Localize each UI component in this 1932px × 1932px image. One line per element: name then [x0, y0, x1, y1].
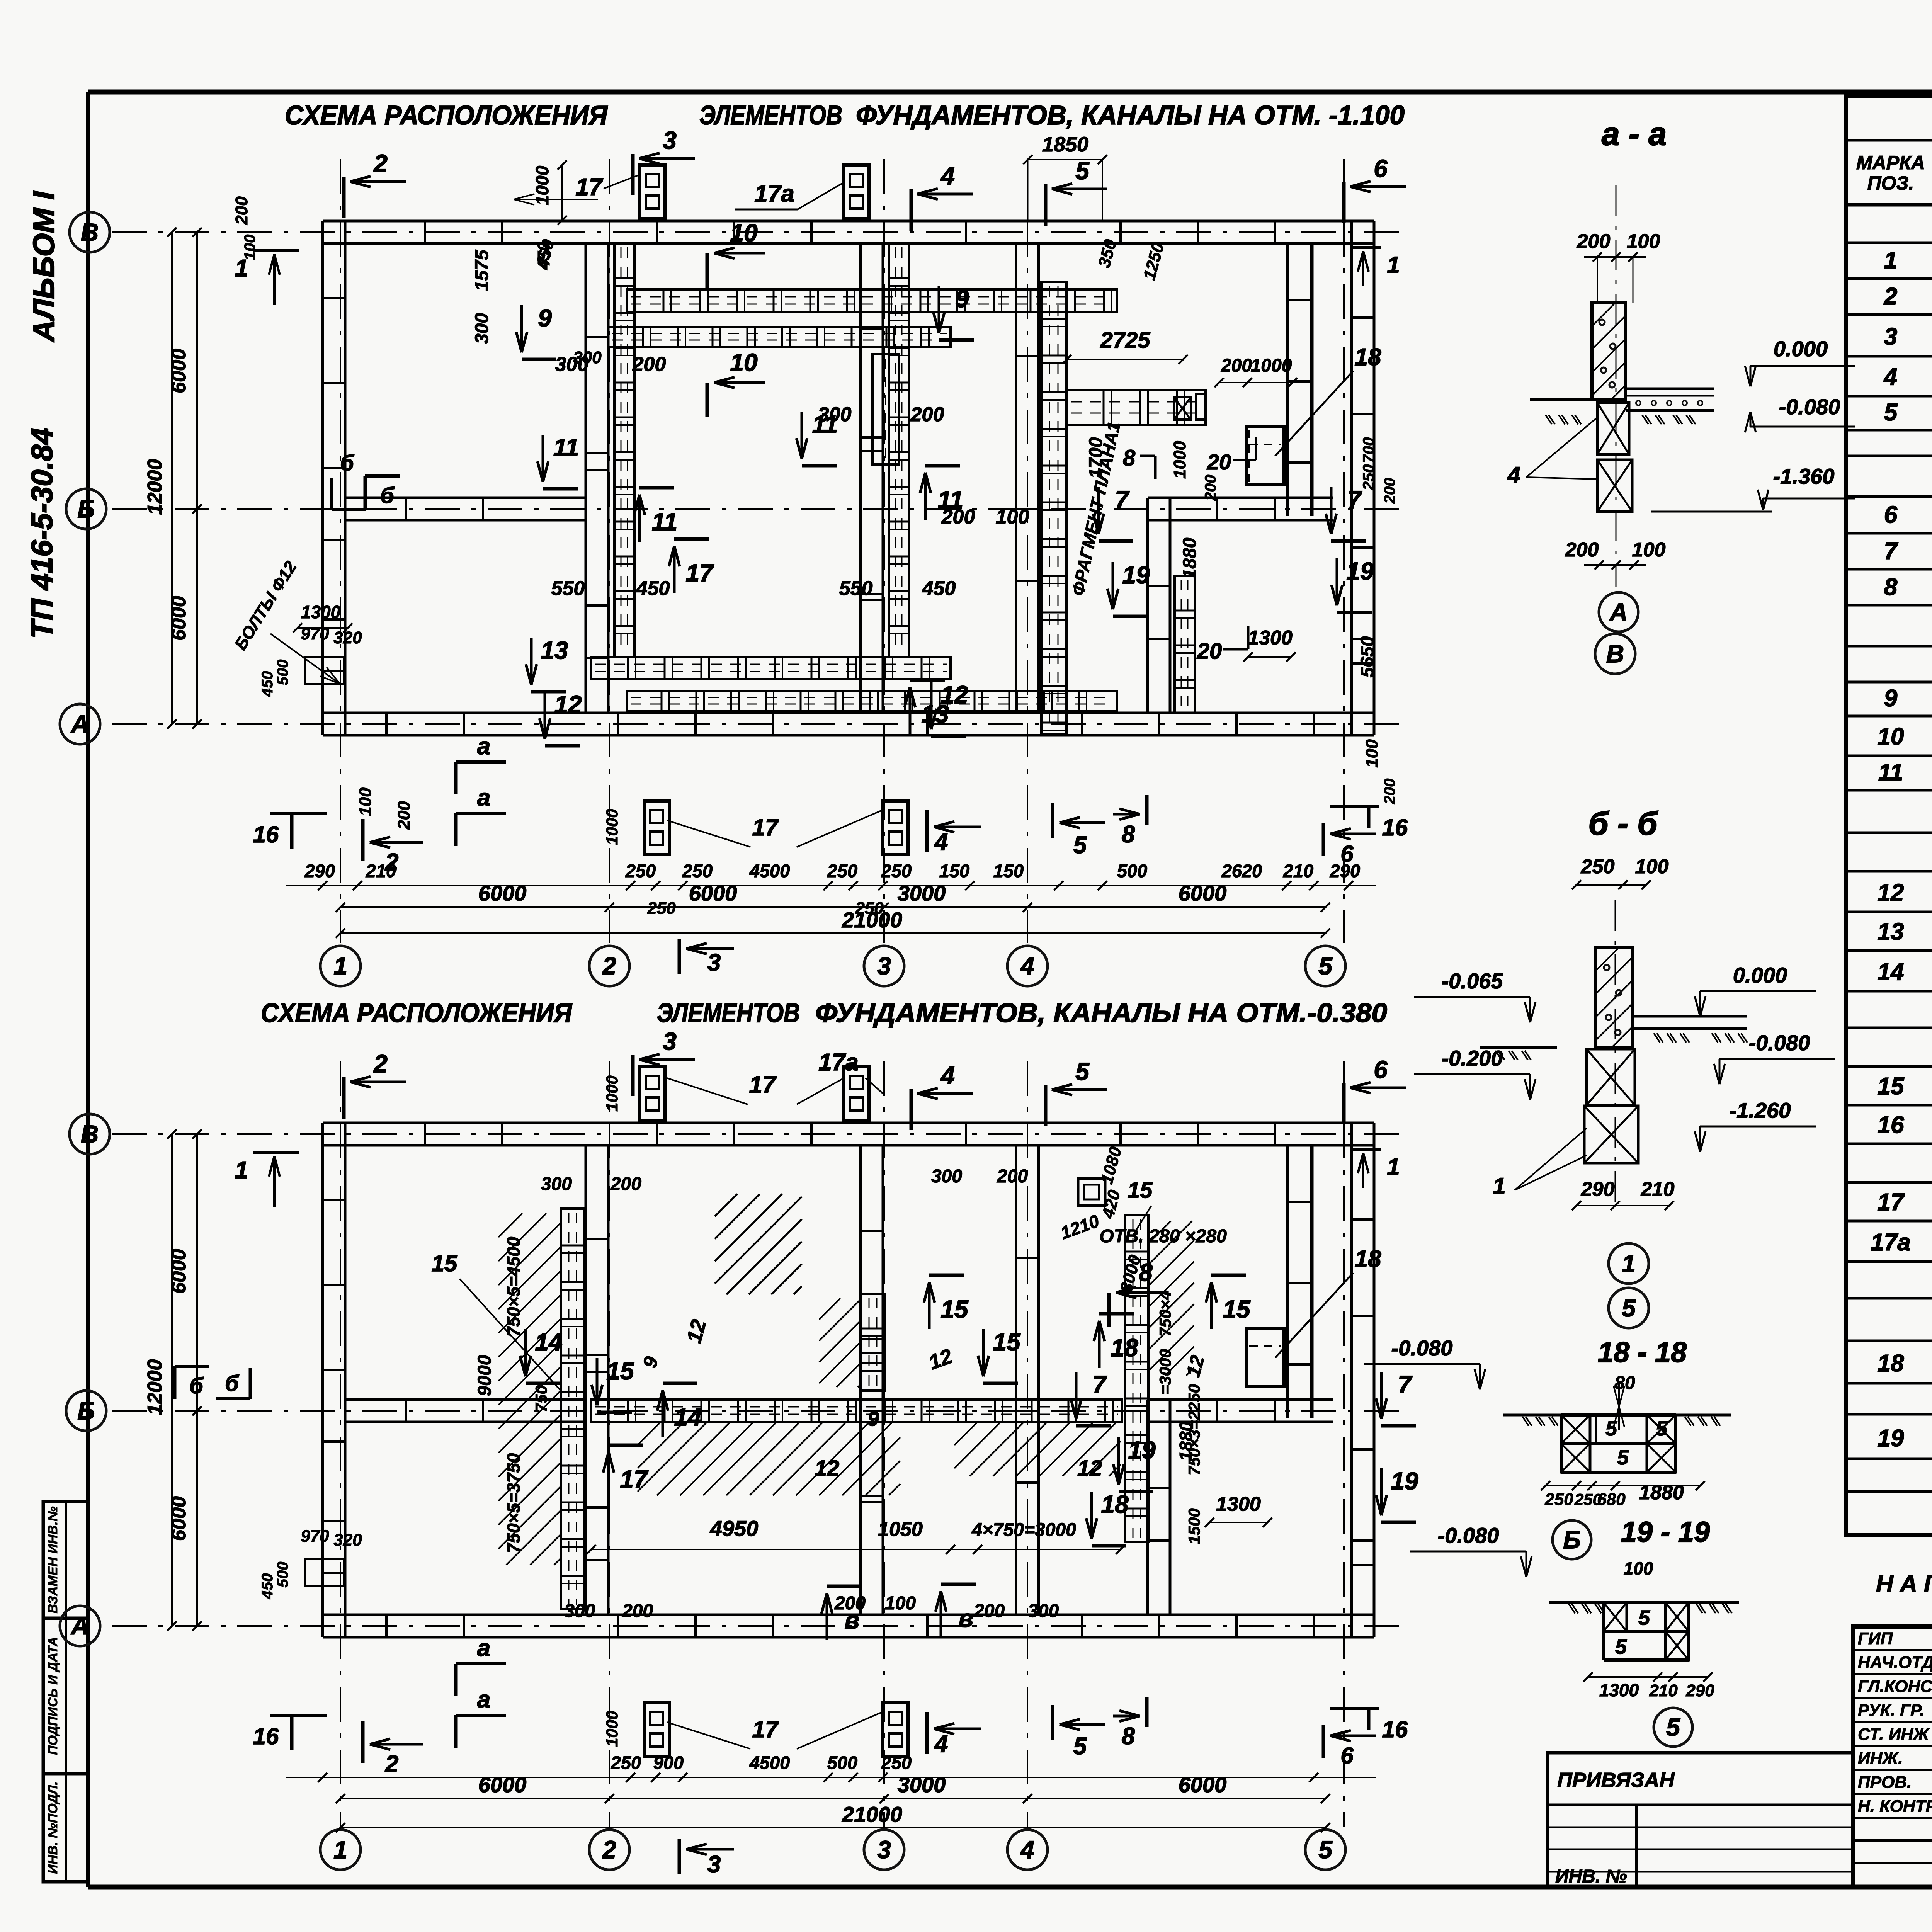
svg-text:6000: 6000	[478, 1772, 527, 1797]
svg-text:1880: 1880	[1176, 1421, 1196, 1461]
svg-text:2: 2	[602, 1836, 616, 1864]
svg-text:550: 550	[551, 577, 585, 600]
svg-text:в: в	[959, 1604, 974, 1632]
svg-text:6000: 6000	[168, 596, 190, 641]
svg-text:200: 200	[1381, 478, 1398, 504]
svg-text:1: 1	[1387, 252, 1400, 278]
svg-text:12: 12	[554, 690, 582, 718]
svg-text:0.000: 0.000	[1774, 337, 1828, 361]
svg-text:290: 290	[1330, 861, 1360, 881]
svg-text:250: 250	[827, 861, 857, 881]
svg-text:3: 3	[663, 1027, 677, 1055]
svg-text:12: 12	[940, 681, 968, 709]
svg-text:ОТВ. 280 ×280: ОТВ. 280 ×280	[1099, 1226, 1227, 1247]
svg-text:200: 200	[1577, 230, 1611, 253]
svg-text:550: 550	[839, 577, 873, 600]
svg-text:100: 100	[1624, 1558, 1653, 1578]
svg-text:450: 450	[259, 1573, 276, 1600]
svg-text:a: a	[477, 1635, 490, 1662]
svg-text:ИНЖ.: ИНЖ.	[1858, 1749, 1903, 1768]
svg-text:17: 17	[685, 559, 714, 587]
svg-text:500: 500	[274, 660, 291, 685]
svg-text:7: 7	[1884, 538, 1898, 565]
svg-text:200: 200	[941, 506, 975, 528]
svg-text:750×4: 750×4	[1156, 1291, 1174, 1337]
svg-text:5: 5	[1318, 1836, 1333, 1864]
svg-text:250: 250	[647, 899, 676, 918]
svg-text:17: 17	[576, 174, 603, 201]
svg-text:15: 15	[1878, 1073, 1905, 1100]
svg-text:Б: Б	[77, 495, 95, 523]
svg-text:Н. КОНТР: Н. КОНТР	[1858, 1797, 1932, 1816]
svg-text:ЭЛЕМЕНТОВ: ЭЛЕМЕНТОВ	[699, 100, 842, 130]
svg-text:6000: 6000	[168, 349, 190, 393]
svg-text:21000: 21000	[842, 908, 902, 932]
svg-text:5: 5	[1075, 1058, 1090, 1085]
svg-text:320: 320	[333, 628, 362, 647]
svg-text:4500: 4500	[749, 1752, 790, 1773]
svg-text:200: 200	[1202, 475, 1219, 501]
svg-text:АЛЬБОМ I: АЛЬБОМ I	[27, 191, 61, 343]
svg-text:9: 9	[1884, 685, 1898, 712]
svg-text:7: 7	[1092, 1371, 1107, 1398]
svg-text:150: 150	[939, 861, 969, 881]
svg-text:16: 16	[1878, 1112, 1904, 1138]
svg-text:ФУНДАМЕНТОВ, КАНАЛЫ НА ОТМ.-: ФУНДАМЕНТОВ, КАНАЛЫ НА ОТМ.-0.380	[815, 998, 1387, 1028]
svg-text:100: 100	[241, 235, 259, 260]
svg-text:2: 2	[385, 1751, 398, 1777]
svg-text:3: 3	[707, 949, 721, 976]
svg-text:300: 300	[1028, 1601, 1059, 1621]
svg-text:10: 10	[730, 219, 757, 247]
svg-text:-1.260: -1.260	[1730, 1098, 1791, 1122]
svg-text:РУК. ГР.: РУК. ГР.	[1858, 1701, 1924, 1720]
svg-text:200: 200	[1565, 539, 1599, 561]
svg-text:-1.360: -1.360	[1773, 464, 1835, 488]
svg-text:18: 18	[1355, 1246, 1381, 1272]
svg-text:6: 6	[1374, 155, 1388, 182]
svg-text:-0.065: -0.065	[1442, 969, 1503, 993]
svg-text:12: 12	[1878, 879, 1904, 906]
svg-text:1000: 1000	[603, 1075, 621, 1111]
svg-text:13: 13	[541, 636, 568, 664]
svg-text:12000: 12000	[144, 459, 166, 515]
svg-text:ИНВ. №: ИНВ. №	[1555, 1866, 1627, 1887]
svg-text:250: 250	[881, 1752, 912, 1773]
svg-text:19: 19	[1391, 1467, 1418, 1495]
svg-text:СХЕМА РАСПОЛОЖЕНИЯ: СХЕМА РАСПОЛОЖЕНИЯ	[261, 998, 573, 1028]
svg-text:8: 8	[1884, 574, 1898, 600]
svg-text:8: 8	[1122, 821, 1135, 848]
svg-text:200: 200	[910, 403, 944, 426]
svg-text:210: 210	[366, 861, 396, 881]
svg-text:В: В	[81, 1120, 99, 1148]
svg-text:ИНВ. №ПОДЛ.: ИНВ. №ПОДЛ.	[46, 1781, 60, 1874]
svg-text:6000: 6000	[168, 1249, 190, 1294]
svg-text:12000: 12000	[144, 1359, 166, 1415]
svg-text:17а: 17а	[1871, 1229, 1910, 1256]
svg-text:ТП 416-5-30.84: ТП 416-5-30.84	[25, 428, 59, 639]
svg-text:9000: 9000	[474, 1355, 495, 1396]
svg-text:7: 7	[1115, 486, 1130, 514]
svg-text:17: 17	[752, 815, 779, 840]
svg-text:100: 100	[1632, 539, 1666, 561]
svg-text:5: 5	[1622, 1294, 1636, 1322]
svg-text:200: 200	[610, 1174, 641, 1194]
svg-text:750: 750	[532, 1385, 550, 1412]
svg-text:1575: 1575	[472, 249, 492, 291]
svg-text:16: 16	[253, 1723, 279, 1749]
svg-text:210: 210	[1649, 1681, 1678, 1700]
svg-text:15: 15	[1223, 1295, 1251, 1323]
svg-text:6: 6	[1374, 1056, 1388, 1083]
svg-text:250: 250	[625, 861, 656, 881]
svg-text:6000: 6000	[168, 1496, 190, 1541]
svg-text:4: 4	[1507, 462, 1520, 488]
svg-text:4500: 4500	[749, 861, 790, 881]
svg-text:16: 16	[1382, 1716, 1408, 1742]
svg-text:1850: 1850	[1042, 133, 1088, 156]
svg-text:200: 200	[1221, 355, 1252, 376]
svg-text:20: 20	[1207, 450, 1231, 474]
svg-text:4: 4	[940, 162, 955, 190]
svg-text:19: 19	[1122, 561, 1150, 589]
svg-text:В: В	[81, 218, 99, 246]
svg-text:Б: Б	[77, 1397, 95, 1425]
svg-text:1000: 1000	[1251, 355, 1292, 376]
svg-text:250: 250	[881, 861, 912, 881]
svg-text:А: А	[1609, 598, 1628, 626]
svg-text:3: 3	[707, 1851, 721, 1878]
svg-text:1: 1	[333, 1836, 347, 1864]
svg-text:6000: 6000	[1179, 1772, 1227, 1797]
svg-text:-0.080: -0.080	[1438, 1523, 1499, 1548]
svg-text:450: 450	[922, 577, 956, 600]
svg-text:5: 5	[1073, 832, 1087, 859]
svg-text:19: 19	[1346, 557, 1374, 585]
svg-text:11: 11	[652, 508, 677, 536]
svg-text:1000: 1000	[532, 165, 552, 205]
svg-text:300: 300	[541, 1174, 572, 1194]
svg-text:250: 250	[611, 1752, 641, 1773]
svg-text:3: 3	[877, 1836, 891, 1864]
svg-text:ПРОВ.: ПРОВ.	[1858, 1773, 1912, 1792]
svg-text:500: 500	[1117, 861, 1147, 881]
svg-text:210: 210	[1641, 1178, 1675, 1201]
svg-text:21000: 21000	[842, 1802, 902, 1827]
svg-text:1300: 1300	[1248, 627, 1293, 649]
svg-text:ПОЗ.: ПОЗ.	[1867, 172, 1914, 194]
svg-text:5: 5	[1318, 952, 1333, 980]
svg-text:200: 200	[395, 801, 413, 830]
svg-text:5: 5	[1605, 1417, 1617, 1440]
svg-text:100: 100	[996, 506, 1029, 528]
svg-text:150: 150	[993, 861, 1024, 881]
svg-text:200: 200	[622, 1601, 653, 1621]
svg-text:19 - 19: 19 - 19	[1621, 1516, 1710, 1548]
svg-text:5650: 5650	[1357, 636, 1378, 677]
svg-text:4: 4	[1020, 952, 1034, 980]
svg-text:НАЧ.ОТД.: НАЧ.ОТД.	[1858, 1653, 1932, 1672]
svg-text:320: 320	[333, 1531, 362, 1549]
svg-text:a: a	[477, 1686, 490, 1713]
svg-text:5: 5	[1073, 1733, 1087, 1760]
svg-text:970: 970	[301, 1527, 329, 1546]
svg-text:-0.080: -0.080	[1779, 395, 1840, 419]
svg-text:500: 500	[827, 1752, 857, 1773]
svg-text:В: В	[1606, 640, 1624, 668]
svg-text:1000: 1000	[603, 1711, 621, 1747]
svg-text:1880: 1880	[1639, 1481, 1684, 1504]
svg-text:750×5=3750: 750×5=3750	[503, 1453, 524, 1553]
svg-text:8: 8	[1122, 1723, 1135, 1750]
svg-text:5: 5	[1615, 1635, 1627, 1658]
svg-text:3000: 3000	[898, 1772, 946, 1797]
svg-text:17а: 17а	[754, 180, 794, 207]
svg-text:9: 9	[955, 285, 969, 313]
svg-text:в: в	[845, 1606, 860, 1634]
svg-text:ГЛ.КОНСТ.: ГЛ.КОНСТ.	[1858, 1677, 1932, 1696]
svg-text:3000: 3000	[898, 881, 946, 905]
svg-text:А: А	[70, 1612, 89, 1640]
svg-text:4: 4	[934, 829, 948, 855]
svg-text:-0.080: -0.080	[1391, 1336, 1453, 1360]
svg-text:9: 9	[867, 1407, 879, 1430]
svg-text:20: 20	[1197, 639, 1222, 664]
svg-text:13: 13	[1878, 918, 1904, 945]
svg-text:11: 11	[553, 434, 579, 461]
svg-text:5: 5	[1884, 399, 1898, 426]
svg-text:300: 300	[818, 403, 852, 426]
svg-text:a - a: a - a	[1602, 116, 1667, 152]
svg-text:10: 10	[730, 349, 757, 376]
svg-text:1500: 1500	[1185, 1508, 1203, 1544]
svg-text:290: 290	[1685, 1681, 1714, 1700]
svg-text:МАРКА: МАРКА	[1856, 152, 1925, 173]
svg-text:-0.080: -0.080	[1749, 1031, 1810, 1055]
svg-text:900: 900	[653, 1752, 684, 1773]
svg-text:4: 4	[1020, 1836, 1034, 1864]
svg-text:4: 4	[934, 1731, 948, 1757]
svg-text:300: 300	[564, 1601, 595, 1621]
svg-text:0.000: 0.000	[1733, 963, 1787, 987]
svg-text:б: б	[340, 451, 355, 476]
svg-text:4: 4	[940, 1061, 955, 1089]
svg-text:1880: 1880	[1180, 537, 1200, 579]
svg-text:4950: 4950	[710, 1516, 759, 1541]
svg-text:1300: 1300	[1216, 1493, 1261, 1515]
svg-text:1: 1	[1622, 1250, 1636, 1277]
svg-text:б: б	[380, 483, 395, 508]
svg-text:14: 14	[535, 1328, 562, 1356]
svg-text:200: 200	[997, 1166, 1028, 1187]
svg-text:14: 14	[674, 1403, 701, 1431]
svg-text:2: 2	[602, 952, 616, 980]
svg-text:250: 250	[1544, 1490, 1573, 1509]
svg-text:300: 300	[472, 313, 492, 344]
svg-text:450: 450	[636, 577, 670, 600]
svg-text:18: 18	[1111, 1334, 1138, 1362]
svg-text:1: 1	[1884, 247, 1897, 274]
svg-text:1300: 1300	[301, 602, 341, 622]
svg-text:ГИП: ГИП	[1858, 1629, 1893, 1648]
svg-text:1: 1	[235, 1157, 248, 1184]
svg-text:1300: 1300	[1599, 1680, 1639, 1700]
svg-text:16: 16	[253, 821, 279, 847]
svg-text:250: 250	[1360, 464, 1377, 491]
svg-text:100: 100	[1635, 855, 1669, 878]
svg-text:2725: 2725	[1100, 328, 1150, 353]
svg-text:15: 15	[432, 1250, 458, 1276]
svg-text:12: 12	[1077, 1456, 1102, 1481]
svg-text:Н А Г Р У З К И: Н А Г Р У З К И	[1876, 1571, 1932, 1597]
svg-text:18 - 18: 18 - 18	[1598, 1336, 1687, 1368]
svg-text:2620: 2620	[1221, 861, 1262, 881]
svg-text:a: a	[477, 733, 490, 760]
svg-text:16: 16	[1382, 815, 1408, 840]
svg-text:4×750=3000: 4×750=3000	[971, 1520, 1076, 1540]
svg-text:ЭЛЕМЕНТОВ: ЭЛЕМЕНТОВ	[657, 998, 800, 1028]
svg-text:=3000: =3000	[1156, 1349, 1174, 1395]
svg-text:680: 680	[1597, 1490, 1626, 1509]
svg-text:12: 12	[815, 1456, 840, 1481]
svg-text:2: 2	[1884, 283, 1897, 310]
svg-text:15: 15	[940, 1295, 969, 1323]
svg-text:290: 290	[304, 861, 335, 881]
svg-text:6: 6	[1884, 502, 1898, 528]
svg-text:6: 6	[1340, 1743, 1354, 1769]
svg-text:1: 1	[333, 952, 347, 980]
svg-text:300: 300	[573, 348, 602, 367]
svg-text:3: 3	[877, 952, 891, 980]
svg-text:3: 3	[663, 126, 677, 154]
svg-text:250: 250	[1581, 855, 1615, 878]
svg-text:300: 300	[931, 1166, 962, 1187]
svg-text:290: 290	[1581, 1178, 1615, 1201]
svg-text:15: 15	[1128, 1178, 1153, 1203]
svg-text:700: 700	[1360, 437, 1377, 463]
svg-text:17а: 17а	[818, 1049, 858, 1076]
svg-text:СХЕМА РАСПОЛОЖЕНИЯ: СХЕМА РАСПОЛОЖЕНИЯ	[285, 100, 608, 130]
svg-text:1: 1	[1387, 1154, 1400, 1180]
svg-text:17: 17	[1878, 1189, 1905, 1216]
svg-text:200: 200	[232, 196, 251, 225]
svg-text:970: 970	[301, 624, 329, 643]
svg-text:5: 5	[1617, 1446, 1629, 1469]
svg-text:6000: 6000	[689, 881, 737, 905]
svg-text:5: 5	[1638, 1606, 1650, 1629]
svg-text:6000: 6000	[1179, 881, 1227, 905]
svg-text:5: 5	[1666, 1713, 1680, 1741]
svg-text:750×5=4500: 750×5=4500	[503, 1236, 524, 1337]
svg-text:210: 210	[1283, 861, 1313, 881]
svg-text:100: 100	[1627, 230, 1660, 253]
svg-text:18: 18	[1101, 1490, 1129, 1518]
svg-text:17: 17	[749, 1071, 777, 1098]
svg-text:19: 19	[1878, 1425, 1904, 1452]
svg-text:500: 500	[274, 1562, 291, 1588]
svg-text:6000: 6000	[478, 881, 527, 905]
svg-text:17: 17	[752, 1716, 779, 1742]
svg-text:2: 2	[373, 150, 388, 177]
svg-text:5: 5	[1656, 1417, 1668, 1440]
svg-text:17: 17	[620, 1465, 649, 1493]
svg-text:1050: 1050	[878, 1518, 923, 1541]
svg-text:100: 100	[356, 787, 375, 816]
svg-text:14: 14	[1878, 959, 1904, 985]
svg-text:9: 9	[538, 304, 552, 332]
svg-text:200: 200	[1381, 779, 1398, 805]
svg-text:a: a	[477, 784, 490, 811]
svg-text:б: б	[225, 1371, 240, 1396]
svg-text:250: 250	[682, 861, 713, 881]
svg-text:8: 8	[1123, 446, 1136, 471]
svg-text:100: 100	[885, 1593, 916, 1614]
svg-text:1000: 1000	[1170, 441, 1189, 479]
svg-text:-0.200: -0.200	[1442, 1046, 1503, 1070]
svg-text:19: 19	[1128, 1436, 1156, 1464]
svg-text:1000: 1000	[603, 809, 621, 845]
svg-text:б - б: б - б	[1588, 805, 1658, 842]
svg-text:А: А	[70, 710, 89, 738]
svg-text:5: 5	[1075, 157, 1090, 185]
svg-text:7: 7	[1398, 1371, 1413, 1398]
svg-text:80: 80	[1614, 1373, 1635, 1393]
svg-text:200: 200	[632, 353, 666, 376]
svg-text:15: 15	[606, 1357, 634, 1385]
svg-text:18: 18	[1355, 344, 1381, 371]
svg-text:СТ. ИНЖ: СТ. ИНЖ	[1858, 1725, 1930, 1744]
svg-text:4: 4	[1883, 364, 1897, 390]
svg-text:15: 15	[993, 1328, 1021, 1356]
svg-text:10: 10	[1878, 723, 1904, 750]
svg-text:ВЗАМЕН ИНВ.№: ВЗАМЕН ИНВ.№	[46, 1506, 60, 1613]
svg-text:3: 3	[1884, 323, 1897, 350]
svg-text:Б: Б	[1563, 1526, 1580, 1554]
svg-text:ПРИВЯЗАН: ПРИВЯЗАН	[1557, 1769, 1675, 1792]
svg-text:450: 450	[259, 671, 276, 697]
svg-text:11: 11	[1878, 759, 1903, 786]
svg-text:1: 1	[1493, 1173, 1505, 1199]
svg-text:18: 18	[1878, 1350, 1904, 1377]
svg-text:200: 200	[973, 1601, 1005, 1621]
svg-text:100: 100	[1362, 739, 1381, 768]
svg-text:ПОДПИСЬ И ДАТА: ПОДПИСЬ И ДАТА	[46, 1637, 60, 1755]
svg-text:ФУНДАМЕНТОВ, КАНАЛЫ НА ОТМ.: ФУНДАМЕНТОВ, КАНАЛЫ НА ОТМ. -1.100	[856, 100, 1405, 130]
svg-text:2: 2	[373, 1050, 388, 1078]
